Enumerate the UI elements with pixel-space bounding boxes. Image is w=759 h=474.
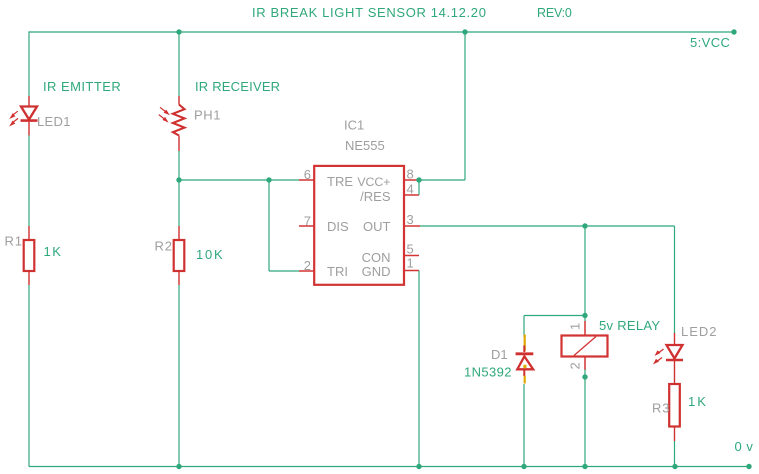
pin 6 stub (299, 179, 314, 181)
svg-text:GND: GND (362, 264, 391, 279)
D1 pin top (523, 346, 525, 353)
wire: node down to pin 4 (418, 180, 420, 195)
svg-text:0 v: 0 v (735, 439, 754, 454)
wire: node to VCC riser (419, 179, 465, 181)
svg-text:R2: R2 (155, 239, 173, 254)
svg-text:R1: R1 (5, 234, 23, 249)
pin 4 stub (404, 194, 419, 196)
svg-text:1: 1 (407, 256, 414, 271)
svg-text:TRE: TRE (327, 174, 353, 189)
wire: D1 to 0v rail (523, 384, 525, 467)
junction VCC+/RES node (416, 177, 421, 182)
wire: OUT net horizontal (420, 225, 675, 227)
svg-text:1N5392: 1N5392 (464, 365, 512, 380)
svg-text:TRI: TRI (327, 264, 348, 279)
junction top rail at PH1 branch (176, 29, 181, 34)
svg-text:10K: 10K (196, 247, 225, 262)
LED LED2 symbol (666, 345, 683, 360)
PH1 pin top (178, 96, 180, 105)
junction PH1/R2/TRE node (176, 177, 181, 182)
wire: relay pin 2 to 0v rail (584, 370, 586, 467)
svg-text:LED1: LED1 (37, 114, 71, 129)
junction 0v at R2 (176, 464, 181, 469)
wire: 0v bottom rail (29, 466, 749, 468)
relay coil diagonal (574, 337, 596, 356)
wire: PH1 branch top (178, 32, 180, 96)
svg-text:IC1: IC1 (344, 118, 364, 133)
diode D1 bottom yellow overlay (524, 376, 526, 384)
resistor R3 (669, 384, 680, 427)
LED1 pin bottom (28, 121, 30, 136)
junction relay pin 2 (582, 374, 587, 379)
svg-text:2: 2 (568, 362, 583, 369)
pin 2 stub (299, 270, 314, 272)
wire: junction to R2 (178, 180, 180, 226)
wire: node to TRE pin 6 (179, 179, 299, 181)
svg-text:R3: R3 (652, 401, 670, 416)
junction OUT at relay branch (582, 223, 587, 228)
svg-text:D1: D1 (491, 347, 508, 362)
wire: R1 to 0v rail (28, 285, 30, 467)
LED1 emission arrow 2 (9, 118, 18, 126)
diode D1 top yellow overlay (524, 335, 526, 352)
junction TRE/TRI branch (266, 177, 271, 182)
R1 pin bottom (28, 271, 30, 285)
svg-text:PH1: PH1 (194, 108, 221, 123)
relay K1 pin 2 stub (584, 357, 586, 371)
svg-text:1K: 1K (688, 394, 708, 409)
PH1 light arrow 2 (159, 115, 169, 123)
svg-text:VCC+: VCC+ (357, 175, 390, 189)
wire: left branch top (VCC to LED1) (28, 31, 30, 96)
LED2 pin top (674, 333, 676, 345)
R1 pin top (28, 226, 30, 240)
svg-text:2: 2 (304, 258, 311, 273)
svg-text:1: 1 (568, 323, 583, 330)
wire: relay branch drop (584, 226, 586, 316)
wire: R3 to 0v rail (674, 441, 676, 467)
svg-text:IR BREAK LIGHT SENSOR 14.12.20: IR BREAK LIGHT SENSOR 14.12.20 (252, 5, 487, 20)
LED1 pin top (28, 96, 30, 106)
svg-text:5v RELAY: 5v RELAY (599, 318, 660, 333)
svg-text:IR EMITTER: IR EMITTER (43, 79, 121, 94)
LED LED1 symbol (21, 107, 38, 121)
svg-text:REV:0: REV:0 (537, 6, 572, 20)
R2 pin bottom (178, 271, 180, 285)
svg-text:5:VCC: 5:VCC (690, 35, 730, 50)
pin 1 stub (404, 270, 419, 272)
junction relay/D1 node (582, 313, 587, 318)
svg-text:4: 4 (407, 182, 414, 197)
wire: VCC riser (464, 32, 466, 180)
svg-text:3: 3 (407, 212, 414, 227)
relay K1 pin 1 stub (584, 321, 586, 335)
LED1 emission arrow 1 (9, 111, 17, 119)
pin 3 stub (404, 225, 420, 227)
IC U1: IC1 NE555 body (314, 166, 404, 285)
LED2 emission arrow 2 (653, 358, 662, 365)
svg-text:LED2: LED2 (681, 324, 718, 339)
PH1 light arrow 1 (160, 107, 170, 115)
svg-text:DIS: DIS (327, 219, 349, 234)
R2 pin top (178, 226, 180, 240)
R3 pin bottom (674, 427, 676, 442)
junction 0v at R3 (672, 464, 677, 469)
svg-text:IR RECEIVER: IR RECEIVER (195, 79, 280, 94)
wire: D1 branch drop (523, 316, 525, 338)
resistor R1 (24, 240, 35, 271)
wire: node to D1 branch (524, 315, 585, 317)
relay K1 coil body (562, 336, 608, 357)
junction 0v at D1 (521, 464, 526, 469)
pin 7 stub (299, 225, 314, 227)
junction 0v at GND drop (416, 464, 421, 469)
svg-text:7: 7 (304, 214, 311, 229)
diode D1 symbol (516, 354, 534, 370)
junction 0v rail end (746, 464, 751, 469)
wire: down to TRI (268, 180, 270, 271)
wire: to TRI pin 2 (269, 270, 299, 272)
wire: OUT to LED2 drop (674, 226, 676, 334)
pin 5 stub (404, 255, 419, 257)
svg-text:OUT: OUT (363, 219, 391, 234)
PH1 pin bottom (178, 136, 180, 152)
junction top rail right end (731, 29, 736, 34)
resistor R2 (174, 240, 185, 271)
wire: GND pin 1 drop (418, 271, 420, 467)
svg-text:8: 8 (407, 167, 414, 182)
LED2 pin bottom / wire to R3 (674, 360, 676, 384)
D1 pin bottom (523, 371, 525, 377)
junction top rail at IC feed (462, 29, 467, 34)
wire: relay pin 1 connect (584, 316, 586, 323)
D1 inner yellow tick (523, 365, 526, 368)
wire: R2 to 0v rail (178, 285, 180, 467)
wire: PH1 to junction (178, 151, 180, 180)
junction 0v at relay (582, 464, 587, 469)
wire: LED1 to R1 (28, 136, 30, 227)
svg-text:NE555: NE555 (345, 138, 385, 153)
svg-text:/RES: /RES (360, 189, 391, 204)
svg-text:5: 5 (407, 242, 414, 257)
photoresistor PH1 (173, 105, 185, 136)
svg-text:6: 6 (304, 167, 311, 182)
svg-text:CON: CON (362, 250, 391, 265)
LED2 emission arrow 1 (655, 349, 664, 356)
wire: VCC top rail (29, 31, 734, 33)
svg-text:1K: 1K (44, 244, 63, 259)
pin 8 stub (404, 179, 419, 181)
